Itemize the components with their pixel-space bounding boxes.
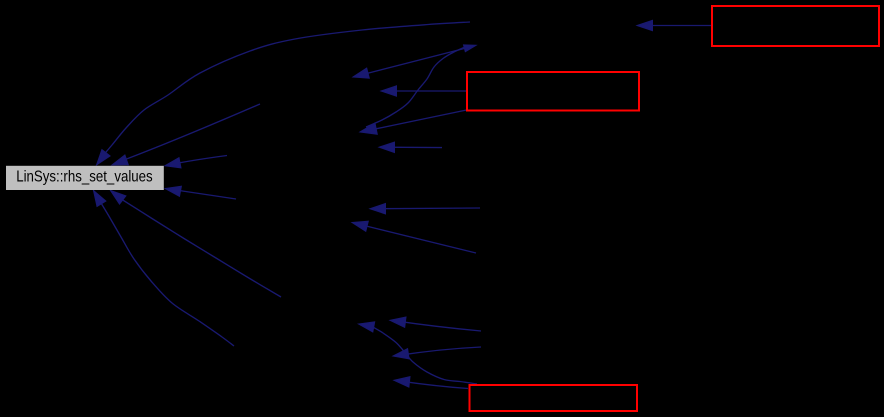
edge: hidden node M2 up to hidden node T (s-curve): [366, 45, 476, 127]
edge: hidden node to box top (B): [112, 104, 260, 165]
node: middle red box (truncated caller): [467, 72, 639, 111]
node: top-right red box (truncated caller): [712, 6, 879, 46]
edge: hidden node T to LinSys::rhs_set_values (long arc): [97, 22, 471, 165]
edge: hidden node to box lower corner (D): [165, 186, 236, 199]
edge: hidden node to hidden node (y253 to y222): [352, 221, 476, 253]
edge: middle red box to hidden node (horizontal): [381, 86, 466, 96]
edge: hidden node to hidden node (J): [390, 317, 481, 331]
node: bottom red box (truncated caller): [470, 385, 638, 411]
svg-text:LinSys::rhs_set_values: LinSys::rhs_set_values: [16, 168, 153, 185]
edge: middle red box corner to hidden node M2: [360, 110, 467, 134]
edge: hidden node to hidden node (horizontal y208): [370, 204, 480, 214]
edge: hidden node to hidden node (L): [393, 347, 481, 359]
edge: hidden node to box corner (C): [165, 156, 227, 168]
edge: hidden node T to hidden node M1: [353, 46, 474, 78]
edge: bottom red box to hidden node (K s-curve): [359, 322, 478, 384]
node: LinSys::rhs_set_values (current function, gray): [6, 166, 164, 190]
edge: bottom red box to hidden node (M): [394, 377, 468, 389]
edge: hidden node to box bottom (F): [111, 191, 282, 298]
edge: top-right red box to hidden node T: [637, 20, 712, 30]
edge: hidden node to hidden node at y147: [379, 142, 442, 152]
edge: hidden node to box bottom (E curve): [94, 191, 235, 347]
